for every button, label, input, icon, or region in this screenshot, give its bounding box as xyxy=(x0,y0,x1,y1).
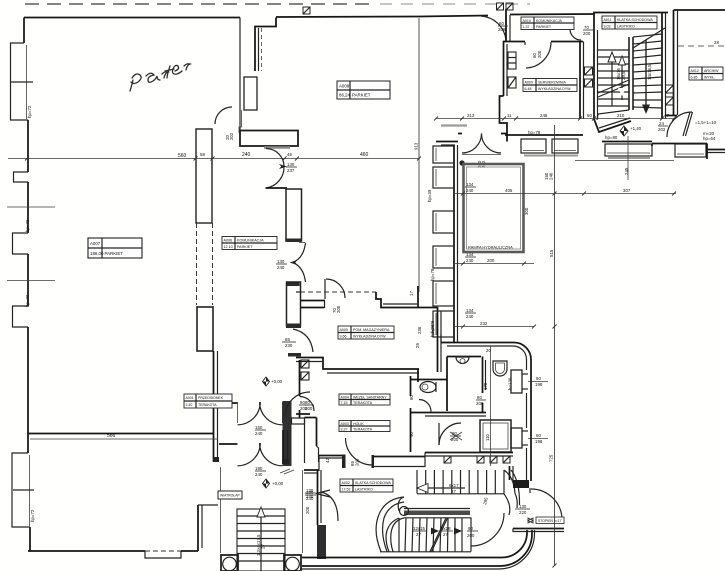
svg-text:9x18: 9x18 xyxy=(441,526,451,531)
dimensions around rampa top (150/240) xyxy=(524,172,554,215)
wall: east side below entrance door xyxy=(513,529,564,533)
window box below A011 landing xyxy=(602,142,652,159)
svg-text:725: 725 xyxy=(549,454,554,462)
hp=78 label above serw windows xyxy=(430,320,435,333)
svg-text:STOPIEŃ h=17: STOPIEŃ h=17 xyxy=(538,519,562,523)
svg-text:80: 80 xyxy=(300,400,305,405)
door 130/240 double-swing corridor to A005 hall xyxy=(276,243,306,287)
svg-text:POM. MAGAZYNIERA: POM. MAGAZYNIERA xyxy=(353,328,390,332)
level mark +0,00 in hall xyxy=(263,377,283,386)
door 85/230 pillar to hall xyxy=(282,329,313,357)
door arc A010 (70/200) xyxy=(498,17,593,40)
door 130/240 into A002 from vestibule side xyxy=(305,490,338,521)
svg-text:130: 130 xyxy=(306,488,314,493)
svg-text:307: 307 xyxy=(623,188,631,193)
room label A006 xyxy=(222,237,277,250)
svg-text:170: 170 xyxy=(483,382,488,390)
wall: north wall of bathroom block + rounded NE corner xyxy=(441,343,531,360)
west wing facade wall with window bays xyxy=(454,145,458,342)
shaft 110 xyxy=(480,420,511,452)
svg-text:200: 200 xyxy=(467,533,475,538)
svg-text:A009: A009 xyxy=(525,81,533,85)
svg-text:90: 90 xyxy=(452,431,457,436)
door arc into A003 holik xyxy=(439,423,462,445)
svg-text:7,15: 7,15 xyxy=(341,401,348,405)
svg-text:=1,5+1=10: =1,5+1=10 xyxy=(695,120,717,125)
svg-text:11: 11 xyxy=(507,113,512,118)
svg-text:A003: A003 xyxy=(341,422,349,426)
room label A003 xyxy=(339,421,390,432)
neighbouring building west wall xyxy=(674,10,678,115)
room label A005 xyxy=(338,326,394,339)
svg-text:200: 200 xyxy=(300,406,308,411)
window bay 5 (bottom-left) xyxy=(12,453,30,527)
svg-text:A005: A005 xyxy=(340,328,348,332)
facade line continuation under block xyxy=(575,160,674,162)
svg-text:240: 240 xyxy=(255,431,263,436)
svg-text:213: 213 xyxy=(467,113,475,118)
svg-text:h=130: h=130 xyxy=(508,377,513,390)
window niche east (upper) xyxy=(511,370,548,393)
svg-text:130: 130 xyxy=(519,504,527,509)
svg-text:hp=39: hp=39 xyxy=(427,189,432,202)
toilet WC1 (A004) xyxy=(420,382,436,393)
washbasin xyxy=(456,357,469,364)
vertical dimension x=490 (bath) xyxy=(490,346,492,466)
wall: east wall of A005 (x≈418) xyxy=(417,286,419,382)
svg-text:hp=78: hp=78 xyxy=(430,320,435,333)
svg-text:6,85: 6,85 xyxy=(691,76,698,80)
radiator hatched boxes on neighbour wall xyxy=(666,85,674,105)
window sill 3 xyxy=(13,233,29,254)
room label A011 xyxy=(602,16,657,29)
svg-text:hp=72: hp=72 xyxy=(25,294,30,307)
svg-text:KOMUNIKACJA: KOMUNIKACJA xyxy=(237,239,264,243)
wall: west facade with window bays xyxy=(11,18,35,552)
svg-text:200: 200 xyxy=(451,437,459,442)
dimension chain y=118.5 (213/11/245/50/210/47) xyxy=(434,113,676,121)
svg-text:24: 24 xyxy=(659,121,664,126)
staircase A002: lower arrows and texts xyxy=(412,526,478,538)
svg-text:A006: A006 xyxy=(224,239,233,243)
svg-text:200: 200 xyxy=(305,506,310,514)
vertical dimension x=628 below stairs xyxy=(624,136,629,180)
svg-text:130: 130 xyxy=(277,259,285,264)
outside entrance stairs xyxy=(237,507,285,571)
svg-text:hp=78: hp=78 xyxy=(430,268,435,281)
door 80/200 between corridor and A004 xyxy=(299,397,314,412)
svg-text:240: 240 xyxy=(466,314,474,319)
wall: north facade centre section xyxy=(276,16,488,18)
staircase A011: treads right flight xyxy=(633,34,662,108)
svg-text:KOMUNIKACJA: KOMUNIKACJA xyxy=(536,19,563,23)
svg-text:9,37: 9,37 xyxy=(341,428,348,432)
svg-text:A001: A001 xyxy=(186,396,194,400)
wall: top facade of A010/A011 block xyxy=(510,13,668,15)
staircase A011: centre stringer xyxy=(597,28,665,120)
door 24/202 bottom right of A011 xyxy=(658,112,693,137)
svg-text:A007: A007 xyxy=(90,241,101,246)
svg-text:240: 240 xyxy=(549,172,554,180)
entrance door east (130/220) with step xyxy=(510,466,563,523)
staircase A011: right wall xyxy=(662,13,666,120)
STOPIEN h=17 label xyxy=(536,517,564,524)
wall: A010 corridor / serwerownia west wall xyxy=(500,9,511,142)
svg-text:80: 80 xyxy=(499,21,504,26)
svg-text:237: 237 xyxy=(287,168,295,173)
staircase A002: west wall xyxy=(317,470,326,559)
neighbouring building north wall xyxy=(674,9,725,11)
handwritten "parter" annotation xyxy=(130,64,190,91)
svg-text:PRZEDSIONEK: PRZEDSIONEK xyxy=(198,396,224,400)
svg-text:198: 198 xyxy=(535,382,543,387)
door 130/237 double-swing from A008 to corridor xyxy=(266,149,298,189)
dimension 200 y=263.5 xyxy=(455,252,534,266)
chimney flue squares in A004 xyxy=(301,360,309,380)
neighbouring building dashed ceiling line xyxy=(678,40,725,46)
room label A007 xyxy=(88,238,142,258)
svg-text:WYKŁADZINA DYW.: WYKŁADZINA DYW. xyxy=(353,335,386,339)
wall: south wall of hall block (staggered) xyxy=(280,455,360,475)
svg-text:ARCHIW: ARCHIW xyxy=(704,69,719,73)
svg-text:240: 240 xyxy=(277,265,285,270)
svg-text:90: 90 xyxy=(468,526,473,531)
svg-text:220: 220 xyxy=(519,510,527,515)
svg-text:PARKIET: PARKIET xyxy=(352,93,371,98)
dimension chain y=193.5 (405/307) xyxy=(455,182,676,196)
svg-text:6,48: 6,48 xyxy=(525,87,532,91)
svg-text:232: 232 xyxy=(480,321,488,326)
svg-text:200: 200 xyxy=(487,258,495,263)
svg-text:12,10: 12,10 xyxy=(224,245,233,249)
svg-text:90: 90 xyxy=(409,432,414,437)
wall: serwerownia north wall with door xyxy=(503,42,583,69)
staircase A002: railing diagonal xyxy=(430,518,448,552)
svg-text:LASTRIKO: LASTRIKO xyxy=(617,25,635,29)
door 85/203 hall to A002 xyxy=(346,438,375,468)
svg-text:236: 236 xyxy=(417,326,422,334)
svg-text:HOLIK: HOLIK xyxy=(353,422,364,426)
svg-text:190: 190 xyxy=(255,466,263,471)
svg-text:28: 28 xyxy=(714,40,719,45)
hp=80 text xyxy=(605,135,618,140)
small texts right margin xyxy=(695,120,717,141)
hp=72 sill labels xyxy=(25,105,35,522)
svg-text:TERAKOTA: TERAKOTA xyxy=(353,401,373,405)
wall: south wall of room A001 xyxy=(28,505,218,558)
svg-text:8x17: 8x17 xyxy=(449,483,459,488)
entrance column left xyxy=(221,555,238,571)
svg-text:WYKŁADZINA DYW.: WYKŁADZINA DYW. xyxy=(538,87,571,91)
svg-text:186,00: 186,00 xyxy=(90,251,104,256)
wall: A005 south + step xyxy=(296,358,419,374)
radiator hatched boxes east wall xyxy=(585,67,593,87)
svg-text:PARKIET: PARKIET xyxy=(237,245,253,249)
room label A001 przedsionek xyxy=(184,394,232,408)
svg-text:27: 27 xyxy=(261,544,266,549)
svg-text:240: 240 xyxy=(306,494,314,499)
svg-text:47: 47 xyxy=(664,113,669,118)
svg-text:25: 25 xyxy=(415,343,420,348)
svg-text:134: 134 xyxy=(466,252,474,257)
svg-text:50: 50 xyxy=(587,113,592,118)
staircase A011: left wall xyxy=(594,14,598,119)
svg-text:hp=72: hp=72 xyxy=(30,509,35,522)
entrance column right xyxy=(284,555,301,571)
wall: serwerownia south wall + windows below xyxy=(505,130,583,156)
wall: west wall of WC1 xyxy=(410,376,412,452)
label wiatrolap xyxy=(218,491,242,499)
wall: east outer wall of bathroom block xyxy=(527,359,532,481)
rampa hydrauliczna platform xyxy=(464,164,524,252)
svg-text:85: 85 xyxy=(285,337,290,342)
double door 200/240 north entrance of wing xyxy=(458,134,507,169)
svg-text:17,52: 17,52 xyxy=(342,488,351,492)
staircase A002: right winder curves xyxy=(504,470,520,515)
svg-text:A002: A002 xyxy=(342,481,350,485)
svg-text:WĘZEŁ SANITARNY: WĘZEŁ SANITARNY xyxy=(353,396,387,400)
svg-text:913: 913 xyxy=(414,142,419,150)
window niche east (lower) xyxy=(511,428,548,448)
staircase A002: arrow and 8x17/27 xyxy=(417,483,465,494)
svg-text:9,03: 9,03 xyxy=(604,25,611,29)
door arc at stair bottom right xyxy=(471,496,504,546)
svg-text:hp=72: hp=72 xyxy=(25,219,30,232)
toilet WC2 xyxy=(493,361,507,376)
svg-text:27: 27 xyxy=(451,489,456,494)
radiator boxes on serwerownia west wall xyxy=(508,52,516,88)
svg-text:A010: A010 xyxy=(523,19,531,23)
svg-text:KLATKA SCHODOWA: KLATKA SCHODOWA xyxy=(617,18,653,22)
svg-text:240: 240 xyxy=(242,152,251,158)
svg-text:12x15: 12x15 xyxy=(413,526,426,531)
svg-text:150: 150 xyxy=(255,425,263,430)
svg-text:230: 230 xyxy=(285,343,293,348)
svg-text:134: 134 xyxy=(466,308,474,313)
room label A002 xyxy=(340,479,393,492)
svg-text:14x16,5: 14x16,5 xyxy=(647,64,652,80)
svg-text:+0,00: +0,00 xyxy=(271,379,283,384)
wall: partition A004 / A003 (y≈415) xyxy=(296,413,310,415)
wall below staircase A011 (slanted) xyxy=(594,118,631,132)
svg-text:130: 130 xyxy=(287,162,295,167)
room label A008 xyxy=(337,81,390,99)
axis tick lines on west side xyxy=(7,207,55,281)
svg-text:1,37: 1,37 xyxy=(523,25,530,29)
wall: north facade of west block xyxy=(24,17,240,19)
svg-text:60: 60 xyxy=(536,433,541,438)
misc small dims in bathrooms xyxy=(409,343,513,437)
door 70/200 into A005 xyxy=(325,279,345,313)
svg-text:86,24: 86,24 xyxy=(339,93,351,98)
wall: west wall of bathroom block xyxy=(419,307,441,372)
svg-text:SERWEROWNIA: SERWEROWNIA xyxy=(538,81,566,85)
staircase A011: down arrow xyxy=(642,40,652,114)
level mark +1,40 xyxy=(620,126,642,136)
wall pillar east of corridor (upper) xyxy=(286,189,302,242)
svg-text:9,66: 9,66 xyxy=(340,335,347,339)
window sill 2 xyxy=(14,172,29,182)
wall pillar south (dark) between double doors and A002 xyxy=(283,401,305,466)
svg-text:405: 405 xyxy=(505,188,513,193)
svg-text:566: 566 xyxy=(107,433,116,439)
dimension 232 y=326.5 xyxy=(455,308,536,329)
vertical dimension x=554.5 (515/725) xyxy=(549,125,557,568)
room label A010 xyxy=(521,17,574,30)
svg-text:RAMPA HYDRAULICZNA: RAMPA HYDRAULICZNA xyxy=(468,245,513,250)
svg-text:460: 460 xyxy=(360,152,369,158)
svg-text:42: 42 xyxy=(325,458,330,463)
svg-text:45: 45 xyxy=(287,152,292,157)
double door 150/240 (north) corridor south end xyxy=(219,402,282,436)
svg-text:202: 202 xyxy=(658,127,666,132)
window sill 4 xyxy=(13,306,29,327)
wall: west wing north-west corner xyxy=(436,142,458,146)
wall / beam over A005 hall (dashed) xyxy=(296,292,419,308)
svg-text:202: 202 xyxy=(229,132,234,140)
hatched flue squares south wall xyxy=(444,456,510,463)
svg-text:TERAKOTA: TERAKOTA xyxy=(353,428,373,432)
svg-text:110: 110 xyxy=(485,433,490,441)
room label A009 xyxy=(523,79,577,92)
svg-text:240: 240 xyxy=(466,188,474,193)
window bay W1 xyxy=(433,146,454,163)
svg-text:300: 300 xyxy=(524,207,529,215)
svg-text:27: 27 xyxy=(443,532,448,537)
level mark +0,00 vestibule xyxy=(263,479,284,488)
grey band left of rampa xyxy=(441,124,467,126)
svg-text:A008: A008 xyxy=(339,84,350,89)
door 80/200 from hall to corridor (arc top right) xyxy=(285,392,314,416)
wall pillar east of corridor (lower) xyxy=(286,282,325,328)
outer curved south wall of A002 xyxy=(300,530,535,569)
svg-text:209: 209 xyxy=(498,27,506,32)
window bay W4 xyxy=(433,246,454,268)
vertical dimension x=419 (913) xyxy=(409,18,422,334)
door 80/200 at top right of A008 xyxy=(481,16,506,42)
svg-text:58: 58 xyxy=(200,152,205,157)
bathroom interior partitions xyxy=(410,357,486,417)
svg-text:210: 210 xyxy=(617,113,625,118)
flue squares on facade xyxy=(303,7,310,14)
wall: thick south-west wall bar of A008 xyxy=(240,131,298,148)
svg-text:hp=80: hp=80 xyxy=(605,135,618,140)
svg-text:+1,40: +1,40 xyxy=(630,126,642,131)
door 20/202 from A007 to corridor xyxy=(215,107,234,140)
svg-text:PARKIET: PARKIET xyxy=(105,251,124,256)
property boundary dashed line (top) xyxy=(25,3,530,5)
svg-text:hp=78: hp=78 xyxy=(528,130,541,135)
double door 150/240 (south) vestibule entry xyxy=(219,443,282,477)
svg-text:134: 134 xyxy=(466,182,474,187)
svg-text:240: 240 xyxy=(255,472,263,477)
window bay W5 xyxy=(433,281,454,306)
svg-text:245: 245 xyxy=(624,167,629,175)
staircase A002: lower flight treads xyxy=(380,518,471,552)
svg-text:240: 240 xyxy=(466,258,474,263)
svg-text:TERAKOTA: TERAKOTA xyxy=(198,403,217,407)
svg-text:WIATROŁAP: WIATROŁAP xyxy=(220,494,240,498)
svg-text:hp=64: hp=64 xyxy=(703,136,716,141)
wall: serwerownia east wall xyxy=(580,42,584,120)
flue squares at top of wall xyxy=(497,3,514,10)
svg-text:27: 27 xyxy=(416,532,421,537)
staircase A002: middle landing rail (dark) xyxy=(398,497,470,516)
door 130/240 side entrance arrow xyxy=(305,488,330,499)
room label A012 xyxy=(689,67,723,80)
svg-text:80: 80 xyxy=(477,395,482,400)
svg-text:200: 200 xyxy=(336,305,341,313)
wall: west jog of room A008 xyxy=(239,18,276,134)
svg-text:200: 200 xyxy=(476,401,484,406)
svg-text:A012: A012 xyxy=(691,69,699,73)
vestibule east wall (pillar) xyxy=(282,430,303,553)
svg-text:80: 80 xyxy=(409,395,414,400)
wall: A002 north wall east segment xyxy=(373,453,425,468)
svg-text:hp=72: hp=72 xyxy=(27,105,32,118)
room label A004 xyxy=(339,394,390,405)
staircase A011: up arrows xyxy=(608,52,626,106)
wall: A003 east wall (thick, double face) xyxy=(305,418,319,463)
svg-text:29,5: 29,5 xyxy=(621,71,626,80)
dimension 566 y=439 xyxy=(30,433,218,439)
window bay 1 (top-left) xyxy=(11,43,29,120)
south walls right of stairs xyxy=(652,116,725,160)
pilaster xyxy=(244,77,257,110)
staircase A002: left turn winder arcs xyxy=(376,497,404,552)
svg-text:560: 560 xyxy=(178,153,187,159)
wall: north wall of room A001 xyxy=(28,433,213,435)
staircase A011: treads left flight xyxy=(598,50,629,106)
svg-text:245: 245 xyxy=(540,113,548,118)
staircase A002: upper flight treads xyxy=(417,470,504,494)
vestibule west wall stub xyxy=(220,467,222,553)
wall: south wall of bathroom block xyxy=(425,453,513,457)
svg-text:+0,00: +0,00 xyxy=(272,481,284,486)
window bay W2 xyxy=(433,167,454,188)
svg-text:198: 198 xyxy=(535,439,543,444)
svg-text:WYKŁ.: WYKŁ. xyxy=(704,76,715,80)
window bay W6 xyxy=(433,311,454,337)
wall: west wall of A004 xyxy=(299,360,301,418)
svg-text:2,40: 2,40 xyxy=(186,403,193,407)
svg-text:70: 70 xyxy=(584,25,589,30)
svg-text:17: 17 xyxy=(409,291,414,296)
svg-text:200: 200 xyxy=(537,50,542,58)
hp labels west wing xyxy=(427,189,435,337)
svg-text:A004: A004 xyxy=(341,396,349,400)
svg-text:515: 515 xyxy=(549,249,554,257)
dimension chain y=158 (560/58/240/45/460) xyxy=(8,152,421,161)
svg-text:KLATKA SCHODOWA: KLATKA SCHODOWA xyxy=(355,481,391,485)
svg-text:PARKIET: PARKIET xyxy=(536,25,552,29)
svg-text:A011: A011 xyxy=(604,18,612,22)
svg-text:200: 200 xyxy=(583,31,591,36)
wall: partition between A007 and corridor A006 (pillar) xyxy=(196,129,219,462)
svg-text:60: 60 xyxy=(536,376,541,381)
svg-text:LASTRIKO: LASTRIKO xyxy=(355,488,373,492)
window bay W3 xyxy=(433,211,454,233)
